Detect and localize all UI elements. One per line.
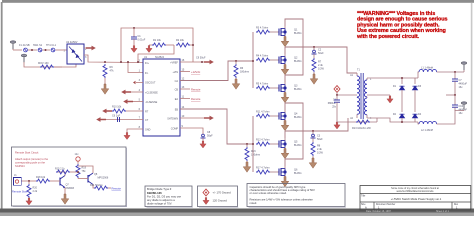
capacitor C9 50uF on VREF pin: [180, 57, 214, 65]
output flag -5V: [461, 101, 466, 110]
wire -5V node: [455, 109, 464, 112]
wire rectifier top to L1: [418, 72, 419, 78]
wire L1 to +5V node: [437, 71, 464, 73]
svg-text:+CLSENSE: +CLSENSE: [145, 91, 158, 94]
wire neutral down and right: [24, 62, 62, 67]
svg-text:SHTDWN: SHTDWN: [167, 117, 178, 120]
ground arrow below R16: [243, 162, 251, 172]
svg-text:+VREF: +VREF: [170, 61, 178, 64]
power return arrow Q4 source: [281, 121, 289, 131]
resistor R9 47k: [103, 64, 114, 78]
wire: [43, 49, 51, 51]
diode D4: [413, 90, 422, 122]
wire Q1 drain loop: [285, 19, 303, 47]
capacitor C1 0.01uF: [131, 27, 146, 45]
pin 5 -CL SENSE off-page arrow: [123, 99, 143, 104]
svg-text:Remote Start Circuit: Remote Start Circuit: [15, 150, 39, 154]
bridge rectifier U2: [64, 41, 88, 64]
svg-text:noted.: noted.: [250, 201, 258, 205]
inductor L1 1.48mH: [419, 67, 437, 72]
diode D3: [413, 78, 422, 90]
wire Q3 drain loop: [285, 47, 303, 82]
wire CA output to top gate bus: [180, 61, 253, 81]
svg-text:L2 1.48mH: L2 1.48mH: [421, 129, 433, 132]
ground legend box: [198, 186, 239, 207]
svg-text:50uF: 50uF: [318, 52, 324, 55]
wire J1 to base: [22, 180, 37, 182]
resistor R8 2.4k 1/2W: [311, 142, 323, 158]
resistor R11 4.7ohm: [256, 111, 276, 118]
inductor L2 1.48mH: [419, 121, 437, 131]
resistor R13 100ohm 2W: [352, 120, 371, 130]
ground arrow below R8: [309, 158, 317, 168]
capacitor C2 50uF snubber: [312, 46, 325, 58]
capacitor note box: [247, 184, 346, 208]
svg-text:Document Number: Document Number: [376, 203, 396, 206]
legend symbol +/-170 ground: [203, 189, 231, 196]
+12V supply flag: [75, 153, 81, 164]
svg-text:-CLSENSE: -CLSENSE: [145, 101, 158, 104]
pin 4 +CL SENSE off-page arrow: [121, 90, 143, 95]
svg-text:+12Vdc: +12Vdc: [191, 70, 201, 74]
legend symbol 120 ground: [203, 198, 227, 205]
varistor MOV1 130V: [38, 62, 54, 69]
svg-text:EB: EB: [175, 108, 179, 111]
diode D1: [393, 77, 405, 90]
wire Q2 drain: [284, 47, 286, 54]
node junction R9: [104, 61, 106, 63]
ground on GND pin 8: [124, 129, 143, 140]
ground arrow below Q7 emitter: [61, 188, 69, 205]
pin 10 SHUTDOWN off-page arrow: [180, 116, 214, 121]
svg-text:R1 10k: R1 10k: [153, 39, 162, 42]
svg-text:Remote: Remote: [191, 97, 201, 101]
svg-text:180ohm: 180ohm: [251, 154, 260, 157]
svg-text:+/- 170 Ground: +/- 170 Ground: [213, 191, 232, 195]
svg-text:U2 4A50V: U2 4A50V: [66, 41, 78, 44]
node tick: [31, 49, 33, 51]
wire secondary bottom to rectifier: [367, 118, 418, 122]
wire secondary center tap to ground: [367, 95, 390, 96]
capacitor C3 50uF snubber: [311, 130, 324, 142]
transistor Q5 BUZ11: [276, 138, 302, 150]
diode D2: [393, 90, 405, 123]
pin 3 OSC OUT stub: [133, 81, 143, 84]
top gate bus: [252, 32, 254, 88]
svg-text:R3 4.7ohm: R3 4.7ohm: [256, 27, 268, 30]
svg-text:0.01uF: 0.01uF: [138, 39, 146, 42]
svg-text:A: A: [365, 206, 367, 210]
svg-text:Resistors are 1/4W +/-5% toler: Resistors are 1/4W +/-5% tolerance unles…: [250, 198, 314, 202]
wire drain node to transformer bottom: [285, 118, 348, 131]
fuse F1: [19, 44, 30, 52]
warning text: [356, 11, 447, 40]
ground arrow below R6: [232, 79, 240, 89]
ground arrow below R20: [26, 198, 32, 205]
svg-text:C6 1uF: C6 1uF: [112, 114, 121, 117]
capacitor C10 4400uF 16v: [452, 94, 467, 115]
svg-text:L1 1.48mH: L1 1.48mH: [421, 67, 433, 70]
svg-text:R4 4.7ohm: R4 4.7ohm: [256, 55, 268, 58]
power return arrow Q2 source: [281, 65, 289, 75]
svg-text:GND: GND: [145, 128, 151, 131]
resistor R17 4.7ohm: [256, 167, 276, 174]
svg-text:50pF: 50pF: [207, 135, 213, 138]
resistor R18 10k: [36, 176, 58, 183]
svg-text:any diode to adjust to a: any diode to adjust to a: [147, 198, 175, 202]
transistor Q3 BUZ11: [276, 82, 302, 94]
svg-text:R18 10k: R18 10k: [36, 176, 46, 179]
resistor R7 2.4k 1/2W: [312, 58, 324, 74]
resistor R19 75k: [76, 164, 87, 179]
ground arrow secondary CT: [387, 96, 393, 103]
svg-text:CT: CT: [145, 119, 149, 122]
transistor Q4 BUZ11: [276, 110, 302, 122]
resistor R15 2.1k: [55, 168, 70, 176]
node junction x121: [120, 61, 122, 63]
thermistor TH1: [46, 44, 57, 52]
wire top feedback rail: [121, 28, 193, 62]
resistor R16 180ohm gate bleed bottom: [245, 143, 260, 162]
svg-text:For D1, D2, D3 you may use: For D1, D2, D3 you may use: [147, 194, 182, 198]
bottom gate bus: [252, 116, 254, 172]
ground arrow below R7: [310, 74, 318, 84]
svg-text:KBU6K-136: KBU6K-136: [147, 191, 162, 195]
wire bridge output to IN+: [84, 55, 143, 63]
bridge diode note box: [145, 186, 193, 207]
transistor Q8 MPS2906: [86, 173, 109, 185]
output flag +5V: [461, 61, 466, 72]
svg-text:BUZ11: BUZ11: [294, 60, 302, 63]
resistor R21 50ohm: [90, 184, 111, 190]
net label pin 13: [180, 88, 201, 92]
wire rectifier bottom to L2: [418, 122, 419, 124]
wire IN- branch: [128, 62, 143, 73]
svg-text:www.hut.fi/Misc/Electronics/ci: www.hut.fi/Misc/Electronics/circuits: [397, 190, 435, 193]
capacitor C6 1uF on CT pin: [96, 114, 143, 122]
resistor R1 10k: [152, 39, 174, 47]
wire divider tap to IN+: [138, 45, 174, 62]
svg-text:R10 10k: R10 10k: [112, 106, 122, 109]
svg-text:1/2W: 1/2W: [318, 68, 324, 71]
resistor R5 4.7ohm: [256, 83, 276, 90]
wire Q4 drain loop: [285, 103, 303, 131]
svg-text:F1 4A SB: F1 4A SB: [19, 44, 30, 47]
ground arrow below C1: [131, 46, 137, 53]
switch S1: [33, 44, 43, 52]
resistor R12 4.7ohm: [256, 139, 276, 146]
title block: [360, 186, 471, 211]
power return arrow Q3 source: [281, 93, 289, 103]
svg-text:BUZ11: BUZ11: [294, 144, 302, 147]
svg-text:R15 2.1k: R15 2.1k: [55, 168, 66, 171]
wire AC hot: [13, 49, 22, 51]
svg-text:R5 4.7ohm: R5 4.7ohm: [256, 83, 268, 86]
svg-text:50uF: 50uF: [317, 138, 323, 141]
svg-text:COMP: COMP: [171, 127, 179, 130]
wire EB output to bottom gate bus: [180, 109, 253, 144]
net label pin 11: [180, 97, 201, 101]
title block date row: [366, 210, 450, 213]
svg-text:CA: CA: [175, 80, 179, 83]
svg-text:SG3524: SG3524: [155, 56, 165, 59]
svg-text:120 Ground: 120 Ground: [213, 199, 228, 203]
node junction x128: [127, 61, 129, 63]
wire L2 to -5V cap: [437, 110, 455, 124]
resistor R2 10k: [176, 39, 194, 47]
transformer T1: [350, 69, 372, 121]
svg-text:CB: CB: [175, 88, 179, 91]
svg-text:BUZ11: BUZ11: [294, 88, 302, 91]
wire to bridge pin 1: [56, 49, 68, 51]
ground arrow below C4: [334, 122, 340, 129]
svg-text:Remote: Remote: [112, 186, 122, 190]
wire R13 to secondary bottom: [376, 118, 378, 122]
transistor Q6 BUZ11: [276, 166, 302, 178]
wire center tap: [337, 94, 357, 96]
capacitor C4 6800uF 25v: [328, 95, 340, 122]
svg-text:R13 100ohm 2W: R13 100ohm 2W: [352, 127, 371, 130]
node junction C4: [336, 94, 338, 96]
svg-text:IN+: IN+: [145, 62, 149, 65]
transistor Q2 BUZ11: [276, 54, 302, 66]
power return arrow Q5 source: [281, 149, 289, 159]
svg-text:+VIN: +VIN: [173, 71, 179, 74]
power return arrow Q6 source: [281, 177, 289, 187]
ground arrow below C8: [200, 141, 206, 148]
wire mid ground rail: [446, 94, 455, 96]
svg-text:Attach output (remote) to the: Attach output (remote) to the: [15, 157, 49, 161]
svg-text:R11 4.7ohm: R11 4.7ohm: [256, 111, 269, 114]
capacitor C8 50pF on COMP pin: [180, 128, 213, 141]
wire secondary top to rectifier: [367, 77, 418, 79]
wire MOV to bridge bottom pin: [54, 64, 76, 67]
svg-text:BUZ11: BUZ11: [294, 172, 302, 175]
svg-text:Title: Title: [361, 194, 366, 197]
svg-text:Bridge Diode Type #: Bridge Diode Type #: [147, 187, 172, 191]
svg-text:SW1 S1: SW1 S1: [33, 44, 43, 47]
svg-text:R2 10k: R2 10k: [176, 39, 185, 42]
wire drain node to transformer top: [285, 47, 357, 73]
svg-text:1/2W: 1/2W: [317, 152, 323, 155]
resistor R6 180ohm gate bleed top: [234, 60, 249, 79]
svg-text:R12 4.7ohm: R12 4.7ohm: [256, 139, 270, 142]
svg-text:+/-5VDC Switch Mode Power Supp: +/-5VDC Switch Mode Power Supply ver.1: [391, 197, 442, 201]
resistor R4 4.7ohm: [256, 55, 276, 62]
ground arrow left of R1: [146, 45, 152, 53]
svg-text:SG3524: SG3524: [15, 164, 25, 168]
svg-text:MPS2906: MPS2906: [98, 177, 109, 180]
svg-text:RT: RT: [145, 110, 149, 113]
svg-text:Remote Start: Remote Start: [12, 190, 28, 194]
svg-text:or over unless otherwise noted: or over unless otherwise noted.: [250, 191, 288, 195]
svg-text:with the powered circuit.: with the powered circuit.: [356, 34, 420, 40]
net flag +170VDC at center tap: [334, 86, 340, 95]
svg-text:Date: October 16, 1997: Date: October 16, 1997: [366, 210, 392, 213]
AC neutral plug P2: [21, 54, 26, 63]
svg-text:TH1 CL1: TH1 CL1: [46, 44, 57, 47]
transistor Q7 2N3903: [58, 176, 75, 190]
svg-text:IN-: IN-: [145, 72, 148, 75]
svg-text:diode voltage of 70V.: diode voltage of 70V.: [147, 201, 172, 205]
wire Q8 emitter to +12: [78, 166, 93, 173]
node tick: [45, 49, 47, 51]
svg-text:C9 50uF: C9 50uF: [196, 57, 206, 60]
wire bleed line: [337, 121, 377, 123]
svg-text:180ohm: 180ohm: [240, 71, 249, 74]
op-amp U1 SG3524 PWM controller: [139, 56, 185, 136]
svg-text:BUZ11: BUZ11: [294, 32, 302, 35]
svg-text:2N3903: 2N3903: [66, 187, 75, 190]
wire Q5 drain: [284, 131, 286, 138]
capacitor C7 4400uF 16v: [452, 71, 467, 95]
remote start circuit box: [12, 147, 128, 207]
resistor R10 10k on RT pin: [102, 106, 143, 114]
wire base to Q8: [78, 178, 86, 180]
power return arrow Q1 source: [281, 37, 289, 47]
wire Q6 drain loop: [285, 131, 303, 166]
svg-text:Size: Size: [361, 204, 366, 206]
transistor Q1 BUZ11: [276, 26, 302, 38]
resistor R20 2.2k: [27, 180, 38, 198]
svg-text:R17 4.7ohm: R17 4.7ohm: [256, 167, 270, 170]
node junction R19 base: [77, 171, 79, 173]
svg-text:2.2k: 2.2k: [33, 190, 38, 193]
node +170V off-page arrow: [84, 46, 96, 51]
resistor R3 4.7ohm: [256, 27, 276, 34]
svg-text:OSCOUT: OSCOUT: [145, 81, 156, 84]
svg-text:Remote: Remote: [191, 88, 201, 92]
AC line input plug P1: [10, 40, 15, 50]
connector J1: [12, 174, 28, 193]
svg-text:Sheet 1 of 1: Sheet 1 of 1: [436, 210, 450, 213]
svg-text:EA: EA: [175, 98, 179, 101]
svg-text:MOV 130: MOV 130: [38, 62, 49, 65]
wire: [28, 49, 37, 51]
wire R15 to +12 node: [70, 171, 78, 173]
svg-text:corresponding pole on the: corresponding pole on the: [15, 160, 46, 164]
ground arrow below R9: [101, 78, 109, 94]
svg-text:BUZ11: BUZ11: [294, 116, 302, 119]
net label pin 15: [180, 70, 201, 74]
